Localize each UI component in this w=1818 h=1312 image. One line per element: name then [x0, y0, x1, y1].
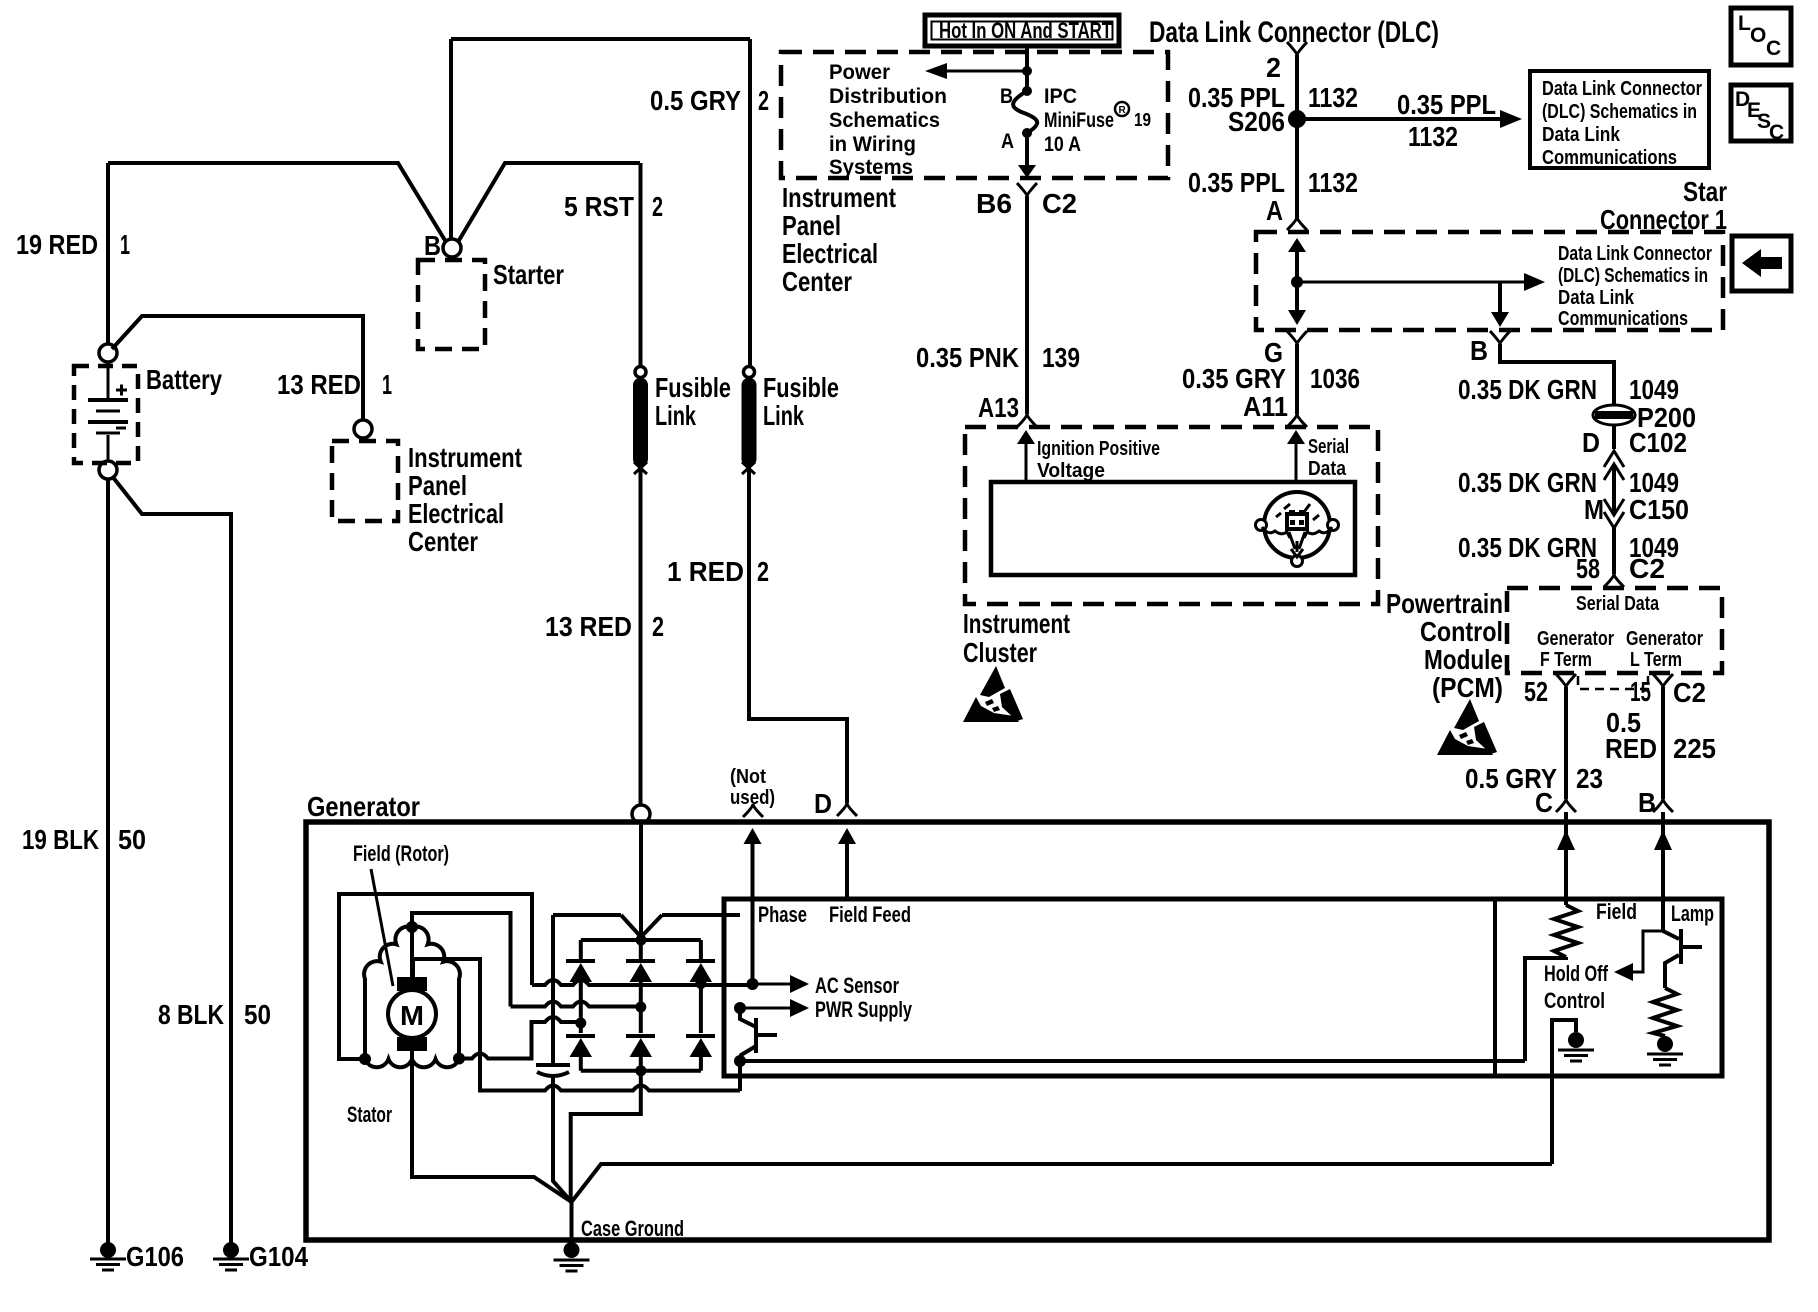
wire 0.35 GRY 1036 [1295, 344, 1299, 414]
wire to C102 [1612, 424, 1616, 449]
instrument panel electrical center dashed box (top) [781, 52, 1168, 178]
regulator field-lamp divider [1493, 899, 1497, 1076]
rectifier bottom rail [581, 1069, 701, 1073]
svg-text:1132: 1132 [1308, 82, 1358, 113]
wire hold off ground path [1552, 1020, 1576, 1164]
PCM dashed box [1507, 588, 1722, 673]
svg-text:1132: 1132 [1408, 121, 1458, 152]
ESD symbol cluster [963, 666, 1023, 722]
wire B+ V junction [553, 915, 740, 937]
svg-text:Electrical: Electrical [408, 498, 504, 529]
svg-text:A13: A13 [978, 392, 1019, 423]
svg-text:Instrument: Instrument [963, 608, 1070, 639]
SECTION: instrument cluster [963, 427, 1378, 722]
svg-text:10 A: 10 A [1044, 133, 1081, 156]
wire 13 RED 2 to generator [639, 470, 643, 806]
connector chevron B below star box [1490, 331, 1510, 344]
svg-text:1036: 1036 [1310, 363, 1360, 394]
svg-text:Center: Center [408, 526, 478, 557]
wire from hot feed [1025, 46, 1029, 91]
svg-text:Field (Rotor): Field (Rotor) [353, 841, 449, 866]
wire 19 RED horizontal run [108, 163, 640, 242]
svg-text:13 RED: 13 RED [277, 369, 361, 400]
svg-text:Data Link Connector (DLC): Data Link Connector (DLC) [1149, 16, 1439, 49]
wire fuse output with arrow [1025, 133, 1029, 165]
svg-text:F Term: F Term [1540, 649, 1592, 671]
ground G104 [213, 1241, 308, 1272]
Hot In ON And START box [925, 15, 1119, 46]
node mid tap diode2 [635, 1002, 646, 1013]
svg-text:RED: RED [1605, 733, 1657, 764]
svg-text:Battery: Battery [146, 364, 222, 395]
wire stator top tap to middle diode [412, 913, 511, 1007]
node field drive junction [734, 1055, 746, 1067]
diode D3 [686, 961, 715, 984]
diode D4 [566, 1023, 595, 1071]
node AC tap right diode [695, 978, 706, 989]
wire 0.35 DK GRN 1049 mid [1612, 466, 1616, 512]
svg-text:Case Ground: Case Ground [581, 1216, 684, 1241]
svg-text:Panel: Panel [782, 210, 841, 241]
svg-text:58: 58 [1576, 553, 1600, 584]
wire stator bottom right tap to left diode [459, 1017, 581, 1059]
svg-text:AC Sensor: AC Sensor [815, 973, 899, 998]
svg-text:G104: G104 [249, 1241, 308, 1272]
SECTION: pcm [1386, 588, 1722, 818]
svg-text:2: 2 [758, 85, 769, 116]
svg-text:R: R [1119, 105, 1127, 116]
svg-text:Control: Control [1544, 988, 1605, 1013]
SECTION: star connector [1182, 176, 1727, 427]
svg-text:0.5 GRY: 0.5 GRY [650, 85, 741, 116]
svg-text:0.35 PNK: 0.35 PNK [916, 342, 1019, 373]
svg-text:L Term: L Term [1630, 649, 1682, 671]
svg-text:Instrument: Instrument [408, 442, 522, 473]
svg-text:B: B [424, 230, 441, 261]
wire case ground stem [570, 1202, 574, 1243]
connector chevron G [1287, 331, 1307, 344]
svg-text:A11: A11 [1243, 391, 1288, 422]
wire 0.5 RED 225 (L term) [1661, 687, 1665, 799]
wire 0.35 PPL 1132 upper [1295, 55, 1299, 214]
splice S206 [1288, 110, 1306, 128]
rotor motor M [388, 931, 436, 1051]
ground lamp resistor [1647, 1036, 1683, 1065]
wire serial data arrow [1295, 440, 1298, 482]
svg-text:Hot In ON And START: Hot In ON And START [939, 18, 1112, 43]
wire 0.35 PNK 139 [1025, 196, 1029, 414]
svg-text:Serial Data: Serial Data [1576, 593, 1660, 615]
svg-text:2: 2 [1266, 52, 1281, 83]
wire 0.5 GRY 2 [748, 39, 752, 367]
svg-text:C102: C102 [1629, 427, 1687, 458]
svg-text:Communications: Communications [1558, 308, 1688, 330]
transistor Q2 (lamp driver) [1663, 929, 1702, 988]
svg-text:Control: Control [1420, 616, 1503, 647]
svg-text:B: B [1638, 787, 1656, 818]
svg-text:C2: C2 [1673, 677, 1706, 708]
fusible link 1 [633, 367, 731, 475]
svg-text:D: D [1582, 427, 1600, 458]
svg-text:139: 139 [1042, 342, 1080, 373]
svg-text:2: 2 [652, 191, 663, 222]
svg-text:Link: Link [763, 400, 804, 431]
svg-text:8 BLK: 8 BLK [158, 999, 224, 1030]
svg-text:5 RST: 5 RST [564, 191, 634, 222]
wire 0.35 DK GRN 1049 lower [1612, 528, 1616, 574]
svg-text:Module: Module [1424, 644, 1503, 675]
svg-text:15: 15 [1630, 676, 1651, 707]
svg-text:0.35 DK GRN: 0.35 DK GRN [1458, 467, 1597, 498]
hold off control arrow [1633, 931, 1663, 972]
connector chevron into star box [1287, 217, 1307, 230]
svg-text:M: M [400, 1000, 424, 1031]
B terminal arrow [1661, 812, 1665, 931]
connector C150 double chevron [1604, 499, 1624, 528]
label power distribution schematics [829, 61, 947, 179]
svg-text:Data Link: Data Link [1542, 124, 1621, 146]
node stator bottom right [453, 1053, 465, 1065]
ground hold off [1558, 1032, 1594, 1061]
wire hold off to case ground [572, 1164, 1553, 1202]
svg-text:C150: C150 [1629, 494, 1689, 525]
svg-text:(Not: (Not [730, 766, 766, 788]
svg-text:(DLC) Schematics in: (DLC) Schematics in [1542, 101, 1697, 123]
battery bottom terminal [99, 461, 117, 479]
wire stator phase left loop to AC rail [339, 894, 532, 1059]
svg-text:C2: C2 [1629, 553, 1665, 584]
svg-text:0.35 PPL: 0.35 PPL [1188, 167, 1285, 198]
wire field drive to regulator right [740, 1061, 1525, 1091]
connector C102 double chevron [1604, 451, 1624, 480]
SECTION: generator [306, 766, 1769, 1271]
svg-text:D: D [814, 788, 832, 819]
svg-text:C: C [1766, 37, 1781, 60]
wire cap branch vertical [553, 915, 572, 1202]
C terminal arrow [1564, 812, 1568, 905]
SECTION: battery-starter [16, 39, 750, 1272]
svg-text:Data Link: Data Link [1558, 287, 1635, 309]
svg-text:Field: Field [1596, 899, 1637, 924]
svg-text:Distribution: Distribution [829, 85, 947, 108]
node IPEC terminal [354, 420, 372, 438]
label powertrain control module [1386, 588, 1503, 703]
svg-text:S206: S206 [1228, 106, 1285, 137]
connector chevron B6 C2 [1017, 183, 1037, 196]
wire field resistor to drive line [1525, 957, 1566, 1061]
rectifier top rail [581, 940, 701, 959]
wire star drop to B with down arrow [1498, 282, 1502, 314]
field feed terminal arrow [845, 838, 849, 899]
svg-text:M: M [1584, 494, 1604, 525]
svg-text:Data: Data [1308, 458, 1347, 480]
node stator bottom left [359, 1053, 371, 1065]
svg-text:19: 19 [1134, 110, 1151, 130]
svg-text:(DLC) Schematics in: (DLC) Schematics in [1558, 265, 1708, 287]
DESC box [1731, 85, 1791, 144]
svg-text:50: 50 [244, 999, 271, 1030]
svg-text:A: A [1001, 130, 1014, 153]
svg-text:Link: Link [655, 400, 696, 431]
PWR supply node and arrow [734, 1002, 746, 1014]
svg-text:Voltage: Voltage [1037, 460, 1105, 482]
diode D2 [626, 961, 655, 1007]
svg-text:1: 1 [382, 369, 392, 400]
wire rotor to case ground [412, 1051, 572, 1202]
svg-text:Generator: Generator [1626, 628, 1703, 650]
svg-text:Data Link Connector: Data Link Connector [1558, 243, 1712, 265]
svg-text:0.35 PPL: 0.35 PPL [1397, 89, 1496, 120]
voltage regulator box [724, 899, 1722, 1076]
connector bracket dashed [1578, 676, 1648, 689]
connector chevron 58 C2 [1604, 574, 1624, 587]
box data link connector schematics [1530, 71, 1709, 169]
wire top horizontal to starter B [451, 39, 750, 239]
wire AC rail (hops at 553 and 581) [532, 980, 753, 985]
svg-text:in Wiring: in Wiring [829, 133, 916, 156]
svg-text:IPC: IPC [1044, 85, 1077, 108]
charge indicator lamp icon [1256, 492, 1339, 567]
SECTION: corner boxes [1731, 8, 1791, 291]
wire rectifier ground leg [571, 1071, 641, 1202]
svg-text:50: 50 [118, 824, 146, 855]
battery symbol [88, 362, 128, 461]
node mid tap diode1 [575, 1018, 586, 1029]
wire branch 0.35 PPL 1132 to DLC schematics [1297, 89, 1522, 152]
svg-text:Phase: Phase [758, 902, 807, 927]
wire ignition positive voltage arrow [1025, 440, 1028, 482]
svg-text:B6: B6 [976, 188, 1012, 219]
wire 19 RED vertical to battery [106, 163, 110, 345]
fuse IPC MiniFuse 19 10A [1000, 85, 1151, 156]
svg-text:Systems: Systems [829, 156, 913, 179]
label instrument panel electrical center (below box) [782, 182, 896, 297]
SECTION: dlc chain [1149, 16, 1709, 230]
svg-text:Serial: Serial [1308, 436, 1349, 458]
svg-text:23: 23 [1576, 763, 1603, 794]
svg-text:1: 1 [120, 229, 130, 260]
wire 1 RED 2 to generator D [749, 470, 847, 803]
svg-text:Powertrain: Powertrain [1386, 588, 1503, 619]
svg-text:Generator: Generator [1537, 628, 1614, 650]
wire phase mid rail (hops) [511, 1002, 641, 1007]
node stator top vertex [406, 921, 418, 933]
svg-text:MiniFuse: MiniFuse [1044, 109, 1114, 132]
diode D6 [686, 984, 715, 1071]
phase wire junction node [747, 978, 759, 990]
diode D1 [566, 961, 595, 1023]
svg-text:0.35 DK GRN: 0.35 DK GRN [1458, 374, 1597, 405]
svg-text:Hold Off: Hold Off [1544, 961, 1608, 986]
ground case [554, 1242, 590, 1271]
wire 0.35 DK GRN 1049 to P200 [1500, 344, 1614, 406]
arrow to power distribution [925, 63, 1032, 79]
svg-text:Star: Star [1683, 176, 1727, 207]
svg-text:Fusible: Fusible [763, 372, 839, 403]
svg-text:13 RED: 13 RED [545, 611, 632, 642]
svg-text:Field Feed: Field Feed [829, 902, 911, 927]
svg-text:(PCM): (PCM) [1432, 672, 1503, 703]
AC sensor arrow [753, 983, 791, 986]
svg-text:19 RED: 19 RED [16, 229, 98, 260]
svg-text:Electrical: Electrical [782, 238, 878, 269]
svg-text:Ignition Positive: Ignition Positive [1037, 438, 1160, 460]
svg-text:Lamp: Lamp [1671, 901, 1714, 926]
battery dashed box [74, 366, 138, 463]
ESD symbol PCM [1437, 699, 1497, 755]
svg-text:Cluster: Cluster [963, 637, 1037, 668]
SECTION: ip electrical center top [781, 15, 1168, 427]
lamp resistor R2 [1653, 988, 1677, 1036]
svg-text:Fusible: Fusible [655, 372, 731, 403]
svg-text:2: 2 [757, 556, 769, 587]
node generator BAT terminal [632, 805, 650, 823]
node B starter terminal [443, 239, 461, 257]
svg-text:C: C [1769, 121, 1784, 144]
wire 5 RST 2 [639, 163, 643, 367]
svg-text:19 BLK: 19 BLK [22, 824, 99, 855]
wire star horizontal with right arrow [1297, 281, 1524, 284]
svg-text:1132: 1132 [1308, 167, 1358, 198]
svg-text:Power: Power [829, 61, 890, 84]
svg-text:Data Link Connector: Data Link Connector [1542, 78, 1702, 100]
svg-text:52: 52 [1524, 676, 1548, 707]
SECTION: fusible links [545, 39, 847, 823]
svg-text:1 RED: 1 RED [667, 556, 744, 587]
transistor Q1 (regulator power) [740, 1008, 777, 1062]
wire 13 RED 1 to IP electrical center [112, 316, 363, 421]
wire B+ vertical through rectifier [639, 822, 643, 937]
wire field feed path from rotor brush [413, 959, 740, 1091]
connector chevron 52 [1556, 674, 1576, 687]
svg-text:Panel: Panel [408, 470, 467, 501]
ground G106 [90, 1241, 184, 1272]
svg-text:PWR Supply: PWR Supply [815, 997, 913, 1022]
fusible link 2 [742, 367, 840, 475]
stator winding crown [364, 926, 460, 1067]
wire star continue down to G [1295, 282, 1299, 318]
wire 0.5 GRY 23 (F term) [1564, 687, 1568, 799]
svg-text:C: C [1535, 787, 1553, 818]
svg-text:Center: Center [782, 266, 852, 297]
connector chevron DLC pin 2 [1287, 42, 1307, 55]
connector chevron 15 C2 [1653, 674, 1673, 687]
starter connector dashed box [418, 260, 485, 349]
svg-text:G106: G106 [126, 1241, 184, 1272]
instrument cluster dashed box [965, 427, 1378, 604]
instrument cluster inner box [991, 482, 1355, 575]
svg-text:B: B [1470, 335, 1488, 366]
svg-text:Starter: Starter [493, 259, 564, 290]
svg-text:0.35 GRY: 0.35 GRY [1182, 363, 1286, 394]
star connector dashed box [1256, 232, 1723, 330]
LOC box [1731, 8, 1791, 65]
svg-text:Instrument: Instrument [782, 182, 896, 213]
capacitor [536, 1065, 570, 1076]
splice P200 [1593, 402, 1696, 433]
svg-text:Communications: Communications [1542, 147, 1677, 169]
phase terminal arrow [751, 838, 755, 984]
svg-text:225: 225 [1673, 733, 1716, 764]
battery top terminal [99, 344, 117, 362]
generator box [306, 822, 1769, 1240]
label DLC schematics in star box [1558, 243, 1712, 330]
back arrow box [1732, 236, 1791, 291]
wire into star connector with up arrow [1295, 244, 1299, 282]
wire 8 BLK 50 to G104 [112, 476, 231, 1243]
wire 19 BLK 50 to G106 [106, 479, 110, 1243]
svg-text:Generator: Generator [307, 791, 420, 822]
diode D5 [626, 1007, 655, 1071]
field resistor R1 [1554, 905, 1578, 957]
svg-text:Stator: Stator [347, 1102, 392, 1127]
svg-text:B: B [1000, 85, 1013, 108]
wire field feed riser to regulator node [738, 1062, 742, 1091]
SECTION: serial data chain [1458, 331, 1696, 587]
svg-text:2: 2 [652, 611, 664, 642]
svg-text:C2: C2 [1042, 188, 1077, 219]
svg-text:A: A [1266, 195, 1283, 226]
instrument panel electrical center dashed box (left) [332, 441, 398, 521]
svg-text:O: O [1750, 24, 1766, 47]
svg-text:1049: 1049 [1629, 374, 1679, 405]
svg-text:Schematics: Schematics [829, 109, 940, 132]
node star junction [1291, 276, 1303, 288]
